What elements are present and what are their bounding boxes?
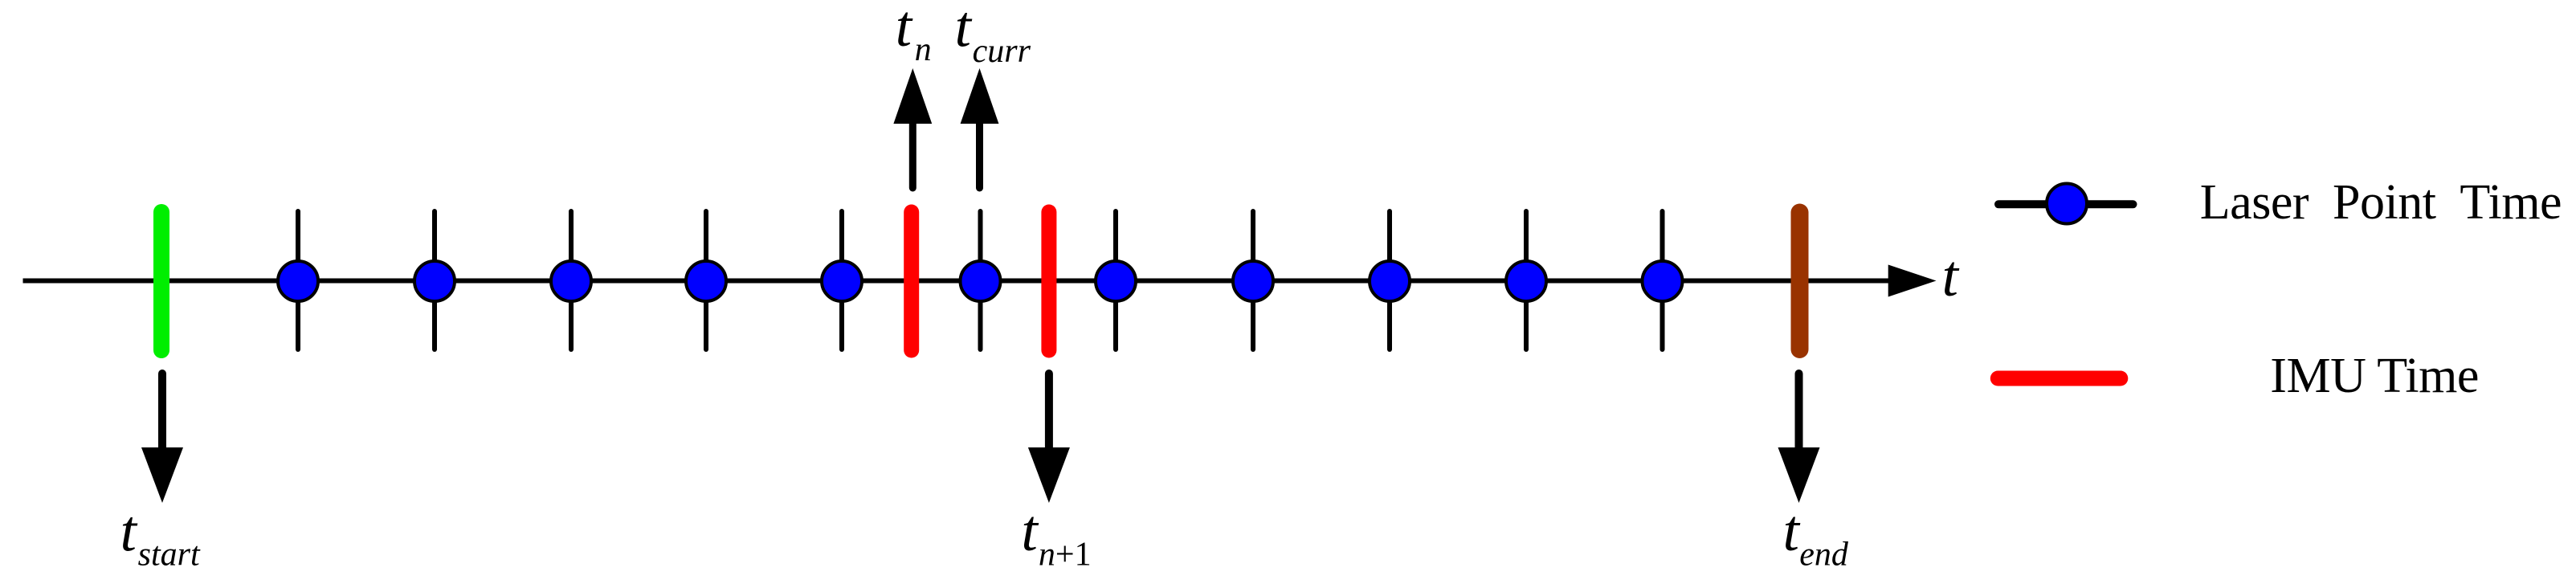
legend IMU marker (red bar) bbox=[1998, 371, 2121, 386]
svg-text:t: t bbox=[120, 499, 138, 564]
svg-text:t: t bbox=[1942, 243, 1960, 308]
IMU tick t_n+1 (red) bbox=[1041, 212, 1056, 350]
end tick (brown) bbox=[1791, 213, 1809, 350]
legend laser point marker bbox=[1998, 184, 2133, 224]
laser point circles (blue) bbox=[278, 261, 1683, 301]
start tick (green) bbox=[153, 212, 169, 350]
time axis arrowhead bbox=[1888, 265, 1937, 297]
svg-text:n: n bbox=[915, 31, 932, 68]
laser point tick marks (vertical black) bbox=[298, 211, 1663, 349]
up arrow t_n bbox=[893, 68, 932, 188]
svg-text:IMU Time: IMU Time bbox=[2270, 349, 2479, 403]
down arrow t_n+1 bbox=[1028, 374, 1070, 503]
svg-text:Laser Point Time: Laser Point Time bbox=[2200, 175, 2562, 230]
svg-text:t: t bbox=[955, 0, 973, 59]
svg-text:end: end bbox=[1799, 537, 1849, 574]
time axis line bbox=[23, 279, 1893, 284]
up arrow t_curr bbox=[961, 68, 999, 188]
svg-text:t: t bbox=[1022, 498, 1039, 563]
svg-text:t: t bbox=[1783, 498, 1801, 563]
svg-text:t: t bbox=[896, 0, 913, 59]
svg-text:start: start bbox=[138, 537, 201, 574]
svg-text:curr: curr bbox=[973, 33, 1031, 70]
down arrow t_start bbox=[141, 374, 183, 503]
down arrow t_end bbox=[1778, 374, 1820, 503]
IMU tick t_n (red) bbox=[904, 212, 919, 350]
svg-text:n+1: n+1 bbox=[1039, 537, 1092, 574]
